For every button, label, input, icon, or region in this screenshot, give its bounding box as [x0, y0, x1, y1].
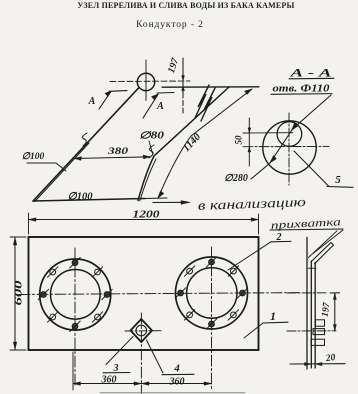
svg-text:Кондуктор - 2: Кондуктор - 2: [136, 20, 204, 30]
top edge: [162, 86, 259, 88]
svg-text:50: 50: [234, 135, 244, 145]
dim 600 line: [14, 238, 16, 350]
svg-text:∅280: ∅280: [224, 173, 248, 184]
dim 50 arrows: [248, 128, 251, 133]
circle horizontal centerline: [110, 80, 190, 83]
svg-text:4: 4: [173, 363, 180, 375]
side lower centerline: [287, 330, 336, 332]
nub upper: [316, 320, 325, 326]
svg-text:1: 1: [270, 309, 276, 323]
section vertical centerline: [288, 113, 290, 185]
bottom dim extension left: [72, 352, 74, 390]
leader diagonal through circles: [251, 95, 331, 179]
dim 197 arrows: [182, 76, 185, 81]
svg-text:1200: 1200: [133, 210, 161, 221]
bottom dim line 360+360: [73, 383, 212, 385]
bend tick: [308, 267, 316, 269]
bottom edge extension: [145, 197, 167, 200]
dim 197 side: [334, 293, 336, 331]
nub middle: [313, 329, 325, 335]
prikhvatka leaders: [313, 230, 343, 254]
nub lower: [311, 339, 325, 345]
dimension 380: [75, 157, 151, 159]
main horizontal centerline: [19, 293, 299, 295]
leader 3: [106, 337, 133, 365]
svg-text:1140: 1140: [181, 131, 203, 154]
dim 1200 line: [29, 219, 259, 221]
diamond inner circle: [136, 325, 147, 336]
big circle phi280: [263, 121, 316, 174]
left oblique edge (double stroke): [33, 88, 139, 202]
left flange inner circle: [51, 270, 101, 320]
plate outline: [29, 237, 259, 350]
right flange bolt holes: [175, 257, 247, 329]
svg-text:УЗЕЛ ПЕРЕЛИВА И СЛИВА ВОДЫ ИЗ: УЗЕЛ ПЕРЕЛИВА И СЛИВА ВОДЫ ИЗ БАКА КАМЕР…: [77, 1, 294, 10]
side upper centerline: [287, 292, 327, 294]
svg-text:380: 380: [107, 147, 129, 157]
right flange vertical centerline: [211, 247, 213, 390]
dim 20: [290, 363, 345, 365]
section arrow A right: [143, 93, 174, 119]
dim 600 extensions: [10, 236, 26, 238]
section arrow A left: [99, 91, 127, 109]
dimension 1140 oblique line: [158, 89, 252, 198]
leader 4: [147, 340, 164, 373]
right flange outer circle: [176, 257, 248, 329]
pipe hole circle: [137, 73, 154, 90]
right flange inner circle: [187, 268, 237, 318]
break squiggle on right edge: [149, 145, 154, 158]
svg-text:5: 5: [335, 174, 341, 186]
svg-text:360: 360: [169, 377, 185, 388]
dimension 197 (top) vertical line: [182, 58, 184, 93]
svg-text:А: А: [156, 101, 164, 112]
break symbol on 1140 line: [195, 85, 209, 118]
circle vertical centerline: [145, 60, 147, 101]
side view back line: [306, 238, 308, 370]
faint bottom scan line: [100, 392, 245, 394]
left flange outer circle: [40, 259, 111, 330]
arrow to sewer: [153, 201, 185, 203]
svg-text:∅100: ∅100: [68, 192, 94, 203]
diamond horizontal centerline: [125, 330, 161, 332]
svg-text:А - А: А - А: [289, 66, 332, 80]
dim 1200 extension right: [258, 214, 260, 234]
svg-text:197: 197: [166, 56, 181, 75]
dim 50 vertical line: [248, 118, 250, 166]
leader 5: [294, 151, 329, 187]
svg-text:197: 197: [321, 301, 333, 318]
dim 1200 extension left: [28, 213, 30, 234]
diamond vertical centerline / extension: [140, 313, 142, 394]
right oblique edge: [138, 87, 229, 201]
left flange vertical centerline: [74, 248, 76, 387]
svg-text:отв. Ф110: отв. Ф110: [273, 84, 330, 95]
svg-text:∅100: ∅100: [22, 152, 45, 162]
break squiggle on left edge: [83, 133, 87, 146]
small circle horizontal centerline: [243, 132, 293, 134]
small circle otv 110: [277, 122, 302, 147]
side plate front lines: [310, 261, 312, 368]
diamond hole: [131, 319, 153, 342]
section horizontal centerline: [243, 145, 329, 147]
svg-text:А: А: [88, 96, 96, 107]
svg-text:в канализацию: в канализацию: [198, 194, 307, 213]
svg-text:600: 600: [14, 281, 25, 306]
svg-text:∅80: ∅80: [139, 131, 164, 142]
bottom edge: [33, 199, 145, 202]
bent lip: [311, 243, 333, 264]
svg-text:20: 20: [324, 353, 336, 364]
left flange bolt holes: [38, 258, 112, 332]
